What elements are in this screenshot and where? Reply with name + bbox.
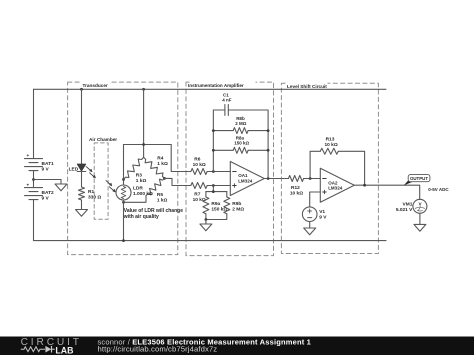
svg-text:LAB: LAB (55, 345, 73, 355)
node: R3 to left leg (122, 178, 125, 181)
ground (battery midpoint) (55, 184, 67, 191)
light arrows into LDR (106, 181, 115, 192)
wire: top +9V rail (34, 88, 387, 90)
node: output junction (363, 184, 366, 187)
wire: R13 feedback loop right (338, 151, 364, 185)
wire: bridge supply drop (143, 89, 145, 157)
svg-text:1.000 kΩ: 1.000 kΩ (133, 191, 153, 197)
wire: R8a branch left (213, 149, 233, 151)
svg-text:OUTPUT: OUTPUT (410, 176, 428, 181)
wire: R9 top rail (206, 191, 227, 193)
svg-text:R12: R12 (291, 185, 300, 191)
svg-text:R7: R7 (194, 192, 200, 198)
resistor R7 (191, 183, 207, 189)
battery BAT2 (25, 188, 43, 200)
svg-text:R9a: R9a (211, 201, 220, 207)
svg-text:9 V: 9 V (42, 196, 50, 202)
wire: R9a top lead (205, 192, 207, 197)
level shift circuit label (286, 81, 328, 89)
svg-text:VM1: VM1 (403, 201, 413, 207)
wire: V1 to ground (309, 222, 311, 229)
ground (R9 pair) (200, 224, 212, 231)
instrumentation amplifier dashed box (186, 82, 274, 256)
svg-text:BAT2: BAT2 (42, 190, 55, 196)
ground (LED branch) (76, 210, 88, 217)
resistor R6 (191, 169, 207, 175)
svg-text:R5: R5 (157, 192, 163, 198)
svg-text:4 nF: 4 nF (222, 98, 232, 103)
svg-text:R4: R4 (157, 156, 163, 162)
wire: feedback right rail (228, 110, 268, 179)
node: LED tap on top rail (80, 88, 83, 91)
svg-text:2 MΩ: 2 MΩ (232, 207, 244, 213)
svg-text:1 kΩ: 1 kΩ (136, 178, 147, 184)
node: inverting input junction (212, 170, 215, 173)
LED emission arrows (86, 167, 95, 178)
wire: right vertex jog to R7 (165, 178, 191, 185)
svg-text:V1: V1 (319, 209, 325, 215)
svg-text:OA1: OA1 (238, 173, 248, 178)
svg-text:R3: R3 (136, 172, 142, 178)
svg-text:Transducer: Transducer (83, 83, 108, 88)
resistor R3 (124, 157, 144, 179)
svg-text:http://circuitlab.com/cb75rj4a: http://circuitlab.com/cb75rj4afdx7z (98, 345, 218, 354)
transducer block dashed box (68, 82, 178, 255)
ground (V1) (304, 228, 316, 235)
wire: between batteries (33, 171, 35, 188)
instrumentation amplifier label (188, 80, 256, 88)
node: battery midpoint junction (32, 178, 35, 181)
svg-text:10 kΩ: 10 kΩ (325, 142, 338, 148)
OUTPUT flag (408, 175, 430, 182)
logo resistor squiggle (21, 347, 43, 352)
resistor R13 (320, 148, 338, 154)
wire: LED to R1 (81, 172, 83, 188)
svg-text:0-5V ADC: 0-5V ADC (428, 187, 449, 192)
wire: R8a branch right (248, 149, 268, 151)
node: supply crossing dot (142, 143, 145, 146)
OUTPUT flag pointer (404, 179, 412, 185)
node: R8b right (267, 129, 270, 132)
node: bridge supply tap on top rail (142, 88, 145, 91)
wire: R6 to OA1 inverting input (207, 171, 230, 173)
resistor R9a (203, 197, 209, 214)
svg-text:OA2: OA2 (328, 180, 338, 185)
wire: R9b top lead (226, 192, 228, 197)
svg-text:9 V: 9 V (42, 167, 50, 173)
resistor R8a (233, 147, 248, 153)
resistor R12 (288, 176, 303, 182)
wire: R7 to OA1 non-inverting input (207, 185, 230, 187)
wire: bridge left leg (123, 145, 125, 186)
svg-text:330 Ω: 330 Ω (88, 194, 101, 200)
svg-text:with air quality: with air quality (123, 214, 159, 220)
wire: OA2 non-inverting to V1 (310, 192, 321, 207)
svg-text:R1: R1 (88, 189, 94, 195)
voltage source V1 (302, 207, 317, 222)
svg-text:10 kΩ: 10 kΩ (290, 190, 303, 196)
wire: R12 to OA2 inverting input (304, 178, 321, 180)
level shift circuit dashed box (281, 83, 378, 253)
wire: bridge top rail (124, 144, 172, 146)
wire: battery top column (33, 89, 35, 158)
svg-text:LM324: LM324 (238, 179, 253, 184)
resistor R8b (233, 128, 248, 134)
svg-text:10 kΩ: 10 kΩ (193, 162, 206, 168)
resistor R9b (224, 197, 230, 214)
svg-text:R6: R6 (194, 157, 200, 163)
node: OA2 inverting junction (309, 177, 312, 180)
node: R8b left (212, 129, 215, 132)
node: LDR on bottom rail (122, 239, 125, 242)
svg-text:2 MΩ: 2 MΩ (235, 121, 247, 126)
svg-text:1 kΩ: 1 kΩ (157, 198, 168, 204)
node: R9 tap (212, 190, 215, 193)
node: bridge bottom joins LDR column (122, 201, 125, 204)
LDR photoresistor (116, 185, 131, 200)
wire: bridge right leg to R6 (171, 145, 191, 172)
resistor R1 (79, 187, 85, 200)
node: non-inverting junction (212, 184, 215, 187)
svg-text:R9b: R9b (232, 201, 241, 207)
voltmeter VM1 (413, 199, 427, 213)
wire: OA1 output (264, 178, 288, 180)
wire: LDR bottom to -9V rail (123, 200, 125, 241)
op-amp OA2 (320, 168, 354, 202)
svg-text:BAT1: BAT1 (42, 161, 55, 167)
wire: R9 bottom rail (206, 214, 227, 220)
svg-text:5.021 V: 5.021 V (396, 207, 413, 213)
node: R9 ground tap (205, 218, 208, 221)
svg-text:LM324: LM324 (328, 186, 343, 191)
svg-text:Level Shift Circuit: Level Shift Circuit (287, 84, 327, 89)
node: R8a left (212, 149, 215, 152)
wire: R13 feedback loop left (310, 151, 320, 178)
wire: bottom -9V rail (34, 240, 387, 242)
svg-text:Air Chamber: Air Chamber (89, 137, 117, 142)
svg-text:+: + (27, 153, 30, 158)
capacitor C1 (225, 105, 228, 116)
svg-text:Instrumentation Amplifier: Instrumentation Amplifier (188, 83, 244, 88)
wire: R1 to ground (81, 200, 83, 210)
svg-text:150 kΩ: 150 kΩ (234, 141, 249, 146)
node: bridge right vertex (163, 177, 166, 180)
wire: midpoint to ground (34, 180, 62, 185)
svg-text:1 kΩ: 1 kΩ (157, 161, 168, 167)
wire: R8b branch left (213, 130, 233, 132)
wire: plus node down to R9 pair (212, 186, 214, 192)
LED diode (77, 164, 86, 172)
svg-text:LDR: LDR (133, 186, 143, 192)
wire: R8b branch right (248, 130, 268, 132)
node: R8a right (267, 149, 270, 152)
svg-text:+: + (27, 182, 30, 187)
svg-text:9 V: 9 V (319, 214, 327, 220)
svg-text:R13: R13 (326, 137, 335, 143)
wire: OA2 output to ADC (354, 185, 419, 199)
wire: feedback left rail (213, 110, 225, 172)
air chamber dashed box (94, 143, 108, 219)
battery BAT1 (25, 159, 43, 171)
wire: R5 bottom to LDR column (124, 196, 147, 203)
op-amp OA1 (230, 162, 264, 196)
resistor R5 (146, 178, 165, 195)
resistor R4 (144, 157, 165, 178)
node: OA1 output junction (267, 177, 270, 180)
transducer label (81, 80, 110, 88)
ground (VM1) (414, 224, 426, 231)
logo diode (43, 346, 55, 353)
wire: R9 to ground (205, 220, 207, 225)
wire: battery bottom column (33, 200, 35, 241)
wire: LED branch (81, 89, 83, 164)
svg-text:LED: LED (69, 167, 79, 173)
footer bar (0, 337, 474, 355)
wire: VM1 to ground (419, 213, 421, 224)
